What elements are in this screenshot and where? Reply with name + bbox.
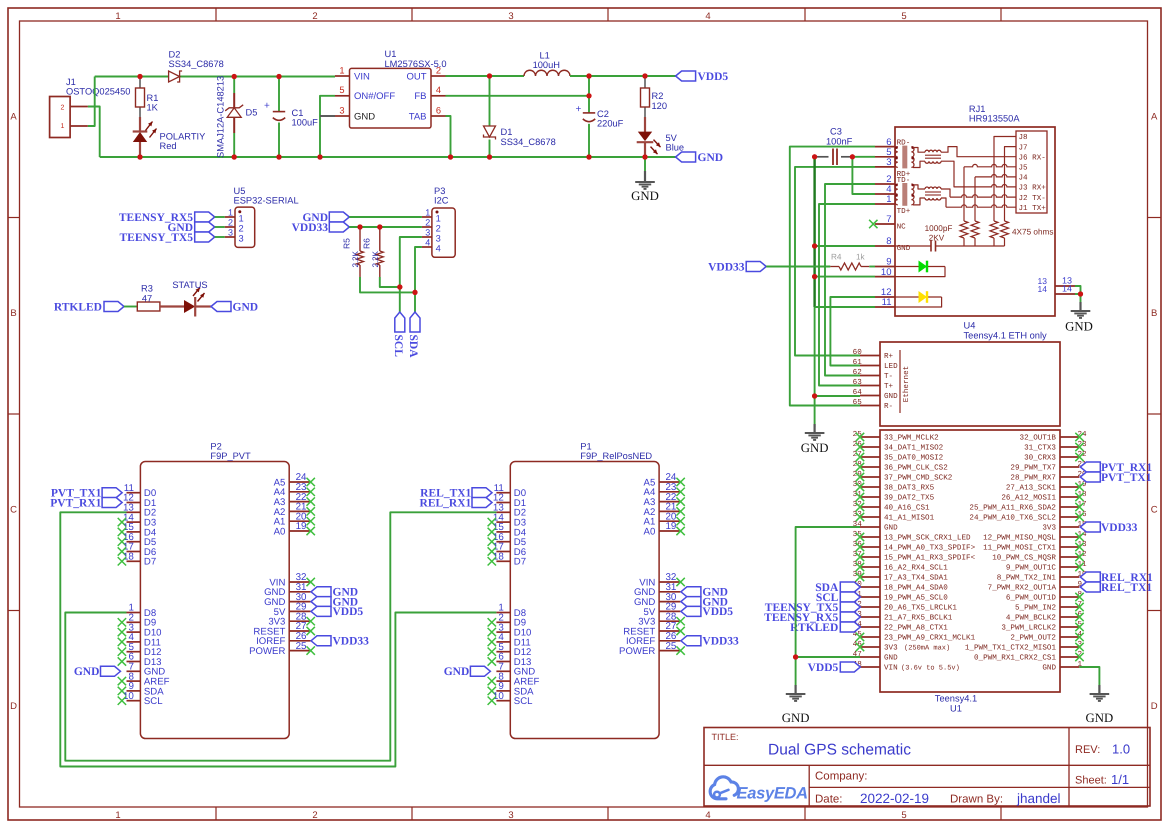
svg-text:2: 2	[312, 810, 317, 821]
pin 12 D1 of P1	[493, 493, 526, 509]
pin 20 A1 of P1	[644, 511, 685, 527]
svg-text:L1: L1	[540, 51, 550, 61]
pin 28 36_PWM_CLK_CS2 of U1 Teensy	[853, 460, 949, 473]
header P1 F9P_RelPosNED	[510, 441, 659, 738]
node bottom rail LED1	[137, 154, 142, 159]
svg-text:GND: GND	[884, 654, 898, 663]
svg-text:37_PWM_CMD_SCK2: 37_PWM_CMD_SCK2	[884, 474, 953, 483]
svg-text:3: 3	[239, 234, 244, 244]
pin 21 A2 of P1	[644, 502, 685, 518]
wire C2 vertical	[588, 76, 590, 113]
pin 18 D7 of P1	[488, 552, 526, 568]
svg-text:34_DAT1_MISO2: 34_DAT1_MISO2	[884, 444, 944, 453]
node bottom rail D1	[487, 154, 492, 159]
pin 34 GND of U1 Teensy	[853, 520, 898, 533]
pin 38 16_A2_RX4_SCL1 of U1 Teensy	[853, 560, 949, 573]
svg-text:R1: R1	[147, 93, 159, 103]
svg-text:J1 TX+: J1 TX+	[1019, 205, 1047, 213]
svg-text:REL_TX1: REL_TX1	[1101, 582, 1152, 594]
pin 30 38_DAT3_RX5 of U1 Teensy	[853, 480, 935, 493]
header P2 F9P_PVT	[140, 441, 289, 738]
pin 8 AREF of P1	[488, 671, 540, 687]
svg-text:jhandel: jhandel	[1016, 791, 1061, 806]
svg-text:4X75 ohms: 4X75 ohms	[1012, 227, 1053, 236]
svg-text:Red: Red	[160, 141, 177, 151]
pin 11 9_PWM_OUT1C of U1 Teensy	[1006, 561, 1087, 573]
svg-text:J7: J7	[1019, 144, 1028, 152]
svg-text:1: 1	[239, 214, 244, 224]
node SCL junction	[397, 284, 402, 289]
wire P2 D2 to P1 D8	[60, 512, 496, 766]
svg-text:D1: D1	[501, 127, 513, 137]
svg-text:RJ1: RJ1	[969, 104, 986, 114]
pin 13 of RJ1	[1038, 276, 1075, 287]
wire LED pin12 bus	[830, 297, 875, 366]
svg-text:R+: R+	[884, 353, 894, 361]
pin 7 of RJ1	[875, 214, 895, 225]
svg-text:Dual GPS schematic: Dual GPS schematic	[768, 742, 911, 759]
ground symbol power rail	[631, 157, 659, 203]
pin 1 GND of U1 Teensy	[1042, 661, 1082, 673]
svg-text:U5: U5	[234, 186, 246, 196]
svg-text:39_DAT2_TX5: 39_DAT2_TX5	[884, 494, 935, 503]
pin 3 of RJ1	[875, 157, 895, 168]
svg-text:7: 7	[886, 214, 891, 225]
svg-text:I2C: I2C	[434, 196, 449, 206]
node FB C2	[586, 93, 591, 98]
svg-text:7_PWM_RX2_OUT1A: 7_PWM_RX2_OUT1A	[988, 584, 1057, 593]
svg-text:F9P_RelPosNED: F9P_RelPosNED	[580, 451, 652, 461]
pin 1 of RJ1	[875, 194, 895, 205]
net flag TEENSY_RX5 at U1 Teensy	[764, 612, 860, 624]
svg-text:100nF: 100nF	[826, 137, 853, 147]
module U1 Teensy4.1	[880, 430, 1060, 714]
svg-text:SDA: SDA	[407, 335, 419, 359]
svg-text:3: 3	[886, 157, 891, 168]
pin 6 4_PWM_BCLK2 of U1 Teensy	[1006, 610, 1084, 623]
svg-text:1k: 1k	[856, 253, 866, 262]
svg-text:ON#/OFF: ON#/OFF	[354, 91, 395, 102]
pin 41 19_PWM_A5_SCL0 of U1 Teensy	[853, 591, 949, 603]
svg-text:GND: GND	[782, 711, 810, 725]
svg-text:5: 5	[901, 810, 906, 821]
net flag SDA	[407, 312, 420, 358]
svg-text:POLARTIY: POLARTIY	[160, 132, 206, 142]
svg-text:14: 14	[1062, 284, 1072, 294]
wire R5 to SDA vertical	[360, 277, 415, 292]
svg-text:F9P_PVT: F9P_PVT	[210, 451, 251, 461]
svg-text:2.2K: 2.2K	[351, 250, 360, 267]
svg-text:Sheet:: Sheet:	[1075, 775, 1107, 787]
pin 15 3V3 of U1 Teensy	[1042, 521, 1087, 533]
EasyEDA logo	[710, 777, 808, 803]
no-connect X on RJ1 pin7	[869, 220, 877, 228]
pin 20 28_PWM_RX7 of U1 Teensy	[1010, 470, 1087, 483]
svg-text:TD+: TD+	[897, 208, 911, 216]
wire FB	[446, 95, 590, 97]
svg-text:3: 3	[508, 11, 513, 22]
svg-text:1: 1	[436, 214, 441, 224]
pin 19 A0 of P1	[644, 521, 685, 537]
RJ1 internal wiring RD to J3	[913, 161, 925, 167]
node top rail R1	[137, 74, 142, 79]
svg-text:2: 2	[228, 217, 233, 227]
svg-text:J8: J8	[1019, 133, 1029, 142]
svg-text:23_PWM_A9_CRX1_MCLK1: 23_PWM_A9_CRX1_MCLK1	[884, 634, 976, 643]
pin 19 27_A13_SCK1 of U1 Teensy	[1006, 480, 1087, 493]
pin 10 of RJ1	[875, 267, 895, 278]
svg-text:22_PWM_A8_CTX1: 22_PWM_A8_CTX1	[884, 624, 948, 633]
svg-text:TAB: TAB	[409, 111, 427, 122]
net flag VDD5	[676, 71, 729, 83]
node bottom rail D5	[232, 154, 237, 159]
pin 5 of RJ1	[875, 147, 895, 158]
svg-text:VDD5: VDD5	[702, 606, 733, 618]
net flag GND at P2 pin31	[311, 587, 358, 599]
wire GND to RJ1 pin10	[815, 276, 875, 278]
svg-text:GND: GND	[233, 301, 259, 313]
resistor R1	[136, 77, 159, 131]
svg-text:36_PWM_CLK_CS2: 36_PWM_CLK_CS2	[884, 464, 948, 473]
svg-text:GND: GND	[1086, 711, 1114, 725]
svg-text:3: 3	[339, 105, 344, 115]
wire RD+ bus	[795, 167, 875, 356]
svg-text:GND: GND	[444, 666, 470, 678]
svg-text:A: A	[10, 112, 17, 123]
pin 40 18_PWM_A4_SDA0 of U1 Teensy	[853, 580, 949, 593]
svg-text:47: 47	[142, 293, 152, 303]
svg-text:4_PWM_BCLK2: 4_PWM_BCLK2	[1006, 614, 1057, 623]
RJ1 wiring J8 to R termination	[994, 137, 1016, 222]
svg-text:13_PWM_SCK_CRX1_LED: 13_PWM_SCK_CRX1_LED	[884, 534, 971, 543]
pin 5 D12 of P2	[118, 642, 162, 658]
pin 14 of RJ1	[1038, 284, 1075, 295]
node bottom rail U1 gnd	[317, 154, 322, 159]
pin 28 3V3 of P2	[268, 611, 315, 627]
ground symbol RJ1	[1065, 294, 1093, 334]
pin 13 D2 of P2	[123, 503, 156, 519]
svg-text:FB: FB	[414, 91, 426, 102]
pin 42 20_A6_TX5_LRCLK1 of U1 Teensy	[853, 600, 958, 613]
svg-text:63: 63	[853, 378, 863, 387]
pin 2 of RJ1	[875, 174, 895, 185]
svg-text:GND: GND	[74, 666, 100, 678]
net flag GND right of rail	[676, 152, 723, 164]
pin 17 D6 of P1	[488, 542, 526, 558]
pin 15 D4 of P2	[118, 522, 157, 538]
capacitor 1000pF 2KV	[895, 224, 1005, 252]
net flag GND at LED3	[211, 301, 258, 313]
svg-text:VDD5: VDD5	[333, 606, 364, 618]
svg-text:31_CTX3: 31_CTX3	[1024, 444, 1056, 453]
svg-text:(250mA max): (250mA max)	[904, 644, 950, 653]
svg-text:2: 2	[436, 65, 441, 75]
wire OUT rail	[446, 75, 525, 77]
net flag VDD5 at P2 pin29	[311, 606, 363, 618]
svg-text:TEENSY_TX5: TEENSY_TX5	[120, 232, 194, 244]
pin 26 IOREF of P2	[256, 631, 310, 647]
svg-text:220uF: 220uF	[597, 119, 624, 129]
node R6 top	[377, 224, 382, 229]
RJ1 wiring J4 to R termination	[975, 174, 1016, 176]
pin 27 35_DAT0_MOSI2 of U1 Teensy	[853, 450, 944, 463]
connector J1	[50, 77, 131, 138]
svg-text:D7: D7	[514, 557, 526, 568]
net flag REL_RX1 at U1 Teensy	[1080, 572, 1153, 584]
svg-text:65: 65	[853, 398, 863, 407]
RJ1 wiring J7 to R termination	[1005, 147, 1017, 221]
wire U1 pin34 GND to pin47	[796, 527, 860, 657]
ground symbol U4	[801, 424, 829, 455]
svg-text:3: 3	[425, 227, 430, 237]
net flag TEENSY_TX5 at U1 Teensy	[765, 602, 861, 614]
svg-text:3V3: 3V3	[1042, 524, 1056, 533]
pin 10 8_PWM_TX2_IN1 of U1 Teensy	[997, 570, 1087, 583]
pin 5 3_PWM_LRCLK2 of U1 Teensy	[1001, 621, 1083, 633]
pin 4 2_PWM_OUT2 of U1 Teensy	[1010, 631, 1083, 643]
svg-text:29_PWM_TX7: 29_PWM_TX7	[1010, 464, 1056, 473]
svg-text:60: 60	[853, 348, 863, 357]
svg-text:3_PWM_LRCLK2: 3_PWM_LRCLK2	[1001, 624, 1056, 633]
svg-text:C2: C2	[597, 109, 609, 119]
svg-text:3: 3	[508, 810, 513, 821]
svg-text:17_A3_TX4_SDA1: 17_A3_TX4_SDA1	[884, 574, 948, 583]
node bottom rail R2-LED	[642, 154, 647, 159]
svg-text:R2: R2	[652, 91, 664, 101]
pin 4 of RJ1	[875, 184, 895, 195]
svg-text:38_DAT3_RX5: 38_DAT3_RX5	[884, 484, 935, 493]
svg-text:1: 1	[115, 11, 120, 22]
svg-text:NC: NC	[897, 223, 907, 232]
wire P3 pin4 SDA	[415, 247, 422, 312]
svg-text:1/1: 1/1	[1111, 772, 1129, 787]
pin 15 D4 of P1	[488, 522, 527, 538]
svg-text:1: 1	[115, 810, 120, 821]
transformer T2 TD isolation windings	[925, 187, 941, 200]
node GND pin10	[812, 274, 817, 279]
pin 23 31_CTX3 of U1 Teensy	[1024, 440, 1087, 453]
pin 24 A5 of P2	[274, 472, 315, 488]
wire U1 pin1 GND right	[1079, 667, 1099, 695]
pin 8 of RJ1	[875, 236, 895, 247]
inductor L1 100uH	[524, 51, 570, 77]
svg-text:2KV: 2KV	[929, 234, 945, 243]
svg-text:30_CRX3: 30_CRX3	[1024, 454, 1056, 463]
svg-text:GND: GND	[631, 189, 659, 203]
svg-text:62: 62	[853, 368, 863, 377]
svg-text:18: 18	[493, 552, 504, 563]
node bottom rail C2	[586, 154, 591, 159]
pin 23 A4 of P2	[274, 482, 315, 498]
svg-text:POWER: POWER	[249, 646, 285, 657]
svg-text:6: 6	[436, 105, 441, 115]
wire U1 GND pin3	[320, 115, 335, 117]
RJ1 internal wiring TD to J2	[913, 185, 925, 189]
svg-text:GND: GND	[1042, 664, 1056, 673]
net flag GND at P1 pin30	[681, 596, 728, 608]
capacitor C1 100uF	[264, 77, 318, 158]
wire GND to RJ1 pin11	[815, 306, 875, 308]
net flag GND at P3	[302, 212, 349, 224]
svg-text:1: 1	[339, 65, 344, 75]
pin 30 GND of P1	[634, 592, 680, 608]
svg-text:GND: GND	[1065, 320, 1093, 334]
pin 33 41_A1_MISO1 of U1 Teensy	[853, 510, 935, 523]
svg-text:Ethernet: Ethernet	[902, 366, 911, 402]
transformer T1 RD isolation windings	[925, 150, 941, 163]
module U4 Teensy4.1 ETH only	[880, 321, 1060, 427]
pin 9 7_PWM_RX2_OUT1A of U1 Teensy	[988, 580, 1083, 593]
svg-text:2: 2	[61, 105, 65, 112]
svg-text:1.0: 1.0	[1112, 742, 1130, 757]
svg-text:14_PWM_A0_TX3_SPDIF>: 14_PWM_A0_TX3_SPDIF>	[884, 544, 976, 553]
pin 2 0_PWM_RX1_CRX2_CS1 of U1 Teensy	[974, 650, 1084, 663]
pin 7 5_PWM_IN2 of U1 Teensy	[1015, 601, 1084, 613]
node GND pin8	[812, 243, 817, 248]
diode D2 SS34_C8678	[169, 50, 224, 83]
node bottom rail TAB	[448, 154, 453, 159]
pin 9 SDA of P2	[118, 681, 165, 697]
pin 61 LED of U4	[853, 358, 898, 371]
pin 8 AREF of P2	[118, 671, 170, 687]
junction dot overlays	[137, 73, 1083, 659]
pin 16 D5 of P1	[488, 532, 526, 548]
LED yellow act inside RJ1	[895, 291, 942, 307]
pin 19 A0 of P2	[274, 521, 315, 537]
svg-text:100uF: 100uF	[292, 118, 319, 128]
svg-text:D2: D2	[169, 50, 181, 60]
wire TD- bus	[825, 184, 875, 376]
wire bottom rail	[100, 156, 676, 158]
svg-text:VIN: VIN	[354, 71, 370, 82]
svg-text:1: 1	[228, 207, 233, 217]
resistor R3 47	[137, 284, 160, 312]
svg-text:100uH: 100uH	[533, 60, 560, 70]
pin 13 11_PWM_MOSI_CTX1 of U1 Teensy	[983, 540, 1087, 553]
svg-text:4: 4	[425, 237, 430, 247]
svg-text:0_PWM_RX1_CRX2_CS1: 0_PWM_RX1_CRX2_CS1	[974, 654, 1056, 663]
RJ1 wiring J5 to R termination	[964, 164, 1016, 166]
RJ1 internal wiring TD to J1	[913, 198, 925, 205]
pin 4 D11 of P1	[488, 632, 531, 648]
node OUT D1	[487, 73, 492, 78]
svg-text:D: D	[10, 701, 17, 712]
svg-text:10_PWM_CS_MQSR: 10_PWM_CS_MQSR	[992, 554, 1056, 563]
svg-text:25: 25	[665, 641, 676, 652]
LED green link inside RJ1	[895, 261, 945, 277]
svg-text:Blue: Blue	[666, 143, 685, 153]
svg-text:RTKLED: RTKLED	[790, 622, 838, 634]
svg-text:R5: R5	[342, 238, 352, 249]
pin 4 D11 of P2	[118, 632, 161, 648]
pin 24 32_OUT1B of U1 Teensy	[1020, 430, 1088, 443]
svg-text:14: 14	[1038, 284, 1048, 294]
svg-text:15_PWM_A1_RX3_SPDIF<: 15_PWM_A1_RX3_SPDIF<	[884, 554, 976, 563]
RJ1 internal wiring RD to J6	[913, 148, 925, 153]
svg-text:SCL: SCL	[144, 696, 163, 707]
net flag SDA at U1 Teensy	[815, 582, 860, 594]
svg-text:REL_RX1: REL_RX1	[420, 497, 472, 509]
svg-text:J5: J5	[1019, 165, 1029, 173]
pin 31 39_DAT2_TX5 of U1 Teensy	[853, 490, 935, 503]
capacitor C2 220uF	[576, 104, 624, 157]
pin 37 15_PWM_A1_RX3_SPDIF< of U1 Teensy	[853, 550, 976, 563]
svg-text:18_PWM_A4_SDA0: 18_PWM_A4_SDA0	[884, 584, 948, 593]
svg-text:+: +	[576, 104, 582, 115]
pin 24 A5 of P1	[644, 472, 685, 488]
pin 12 D1 of P2	[123, 493, 156, 509]
svg-text:5: 5	[901, 11, 906, 22]
node U1 GND	[793, 654, 798, 659]
svg-text:VDD33: VDD33	[1101, 522, 1138, 534]
svg-text:SS34_C8678: SS34_C8678	[169, 59, 224, 69]
pin 10 SCL of P1	[488, 691, 534, 707]
net flag REL_RX1 at P1	[420, 497, 492, 509]
svg-text:1: 1	[61, 123, 65, 130]
ethernet jack RJ1 HR913550A	[895, 104, 1055, 316]
wire U5 pin1	[215, 216, 225, 218]
pin 16 24_PWM_A10_TX6_SCL2 of U1 Teensy	[969, 510, 1087, 523]
svg-text:EasyEDA: EasyEDA	[737, 785, 808, 803]
svg-text:HR913550A: HR913550A	[969, 114, 1020, 124]
wire U5 pin2	[215, 226, 225, 228]
svg-text:VDD5: VDD5	[698, 71, 729, 83]
pin 48 VIN of U1 Teensy	[853, 660, 898, 673]
svg-text:VDD5: VDD5	[808, 662, 839, 674]
wire VDD33 to R4	[766, 266, 830, 268]
wire R4 to RJ1 pin9	[869, 266, 875, 268]
svg-text:VDD33: VDD33	[702, 636, 739, 648]
net flag SCL	[392, 312, 405, 357]
svg-text:25_PWM_A11_RX6_SDA2: 25_PWM_A11_RX6_SDA2	[969, 504, 1056, 513]
wire GND bus	[814, 157, 816, 427]
svg-text:J1: J1	[66, 77, 76, 87]
svg-text:21_A7_RX5_BCLK1: 21_A7_RX5_BCLK1	[884, 614, 953, 623]
svg-text:Teensy4.1: Teensy4.1	[935, 694, 977, 704]
wire U5 pin3	[215, 236, 225, 238]
wire TAB to bottom rail	[446, 116, 451, 157]
svg-text:2: 2	[239, 224, 244, 234]
wire R6 to SCL vertical	[380, 277, 400, 287]
svg-text:PVT_TX1: PVT_TX1	[1101, 472, 1152, 484]
pin 3 1_PWM_TX1_CTX2_MISO1 of U1 Teensy	[965, 640, 1084, 653]
net flag PVT_TX1 at U1 Teensy	[1080, 472, 1151, 484]
pin 7 GND of P2	[127, 662, 166, 678]
node GND pin64	[812, 393, 817, 398]
svg-text:SMAJ12A-C148213: SMAJ12A-C148213	[215, 76, 225, 158]
svg-text:8: 8	[886, 236, 891, 247]
LED LED1 POLARTIY Red	[133, 117, 206, 157]
LED LED3 STATUS	[172, 280, 207, 317]
svg-text:GND: GND	[884, 524, 898, 533]
pin 39 17_A3_TX4_SDA1 of U1 Teensy	[853, 570, 949, 583]
pin 25 POWER of P2	[249, 641, 315, 657]
pin 62 T- of U4	[853, 368, 893, 381]
svg-text:C: C	[1151, 505, 1158, 516]
svg-text:4: 4	[705, 810, 710, 821]
svg-text:Teensy4.1 ETH only: Teensy4.1 ETH only	[964, 331, 1048, 341]
wire P2 D8 to P1 D2	[65, 512, 496, 760]
net flag VDD5 at P1 pin29	[681, 606, 733, 618]
svg-text:20_A6_TX5_LRCLK1: 20_A6_TX5_LRCLK1	[884, 604, 957, 613]
svg-text:16_A2_RX4_SCL1: 16_A2_RX4_SCL1	[884, 564, 948, 573]
net flag PVT_RX1 at P2	[50, 497, 122, 509]
pin 60 R+ of U4	[853, 348, 894, 361]
svg-text:C: C	[10, 505, 17, 516]
svg-text:SS34_C8678: SS34_C8678	[501, 137, 556, 147]
svg-text:3V3: 3V3	[884, 644, 898, 653]
svg-text:U1: U1	[385, 49, 397, 59]
